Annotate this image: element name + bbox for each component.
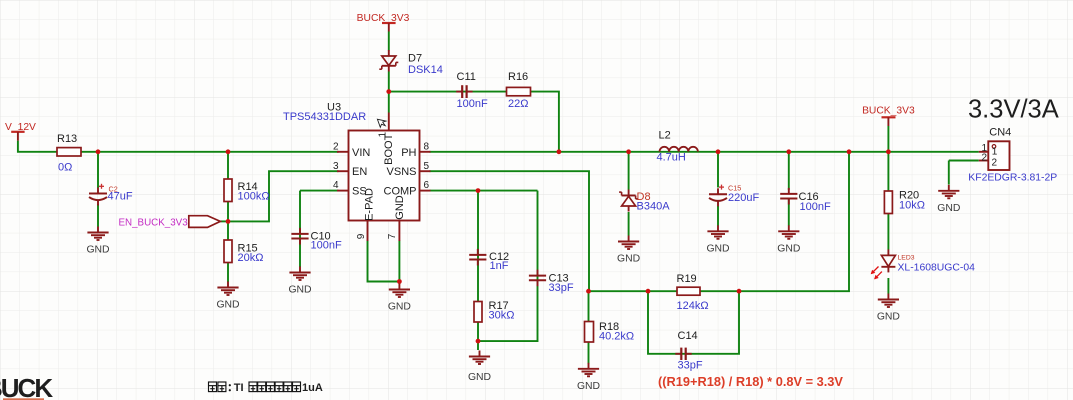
svg-text:TI: TI	[234, 382, 244, 394]
svg-text:8: 8	[424, 141, 430, 152]
svg-text:GND: GND	[216, 300, 239, 311]
svg-text:D7: D7	[408, 52, 422, 64]
svg-text:GND: GND	[288, 285, 311, 296]
svg-text:BUCK_3V3: BUCK_3V3	[862, 105, 915, 116]
svg-text:GND: GND	[877, 312, 900, 323]
svg-text:4.7uH: 4.7uH	[657, 151, 686, 163]
svg-text:R16: R16	[508, 71, 528, 83]
svg-text:VIN: VIN	[352, 147, 370, 159]
svg-text:100kΩ: 100kΩ	[238, 191, 270, 203]
svg-text:B340A: B340A	[637, 201, 671, 213]
svg-text:3.3V/3A: 3.3V/3A	[968, 96, 1059, 124]
svg-text:20kΩ: 20kΩ	[238, 252, 264, 264]
svg-text:VSNS: VSNS	[387, 166, 417, 178]
svg-text:BUCK_3V3: BUCK_3V3	[357, 13, 410, 24]
svg-text:((R19+R18) / R18) * 0.8V = 3.3: ((R19+R18) / R18) * 0.8V = 3.3V	[658, 374, 843, 389]
svg-text:GND: GND	[577, 381, 600, 392]
svg-text:C14: C14	[678, 330, 698, 342]
svg-text:BOOT: BOOT	[383, 133, 395, 164]
svg-text:2: 2	[981, 153, 987, 164]
svg-text:4: 4	[333, 180, 339, 191]
svg-text:0Ω: 0Ω	[58, 162, 72, 174]
svg-text:C11: C11	[457, 71, 476, 83]
svg-text:2: 2	[992, 157, 998, 168]
svg-text:220uF: 220uF	[728, 192, 759, 204]
svg-text:V_12V: V_12V	[5, 122, 36, 133]
svg-text:33pF: 33pF	[678, 360, 703, 372]
svg-text:E-PAD: E-PAD	[364, 188, 376, 221]
svg-text:GND: GND	[937, 203, 960, 214]
svg-text:PH: PH	[401, 147, 416, 159]
svg-text:7: 7	[387, 233, 398, 239]
svg-text:GND: GND	[468, 372, 491, 383]
svg-text:XL-1608UGC-04: XL-1608UGC-04	[898, 263, 976, 274]
svg-text:2: 2	[333, 141, 339, 152]
svg-text:1: 1	[992, 147, 998, 158]
svg-text:40.2kΩ: 40.2kΩ	[599, 331, 634, 343]
svg-text:22Ω: 22Ω	[508, 98, 528, 110]
svg-text:DSK14: DSK14	[408, 64, 443, 76]
svg-text:GND: GND	[617, 254, 640, 265]
svg-text:LED3: LED3	[898, 254, 915, 261]
svg-text:EN_BUCK_3V3: EN_BUCK_3V3	[119, 218, 189, 229]
svg-text:100nF: 100nF	[800, 201, 831, 213]
svg-text:L2: L2	[659, 129, 671, 141]
svg-text:EN: EN	[352, 166, 367, 178]
svg-text:30kΩ: 30kΩ	[489, 310, 515, 322]
svg-text:100nF: 100nF	[457, 98, 488, 110]
svg-text:GND: GND	[86, 245, 109, 256]
svg-text:R19: R19	[677, 273, 697, 285]
svg-text:1nF: 1nF	[490, 260, 509, 272]
svg-text:R13: R13	[57, 133, 77, 145]
svg-text:CN4: CN4	[989, 126, 1011, 138]
svg-text:6: 6	[424, 180, 430, 191]
svg-text:47uF: 47uF	[108, 190, 133, 202]
svg-text:GND: GND	[777, 243, 800, 254]
svg-text:C15: C15	[728, 183, 741, 192]
svg-text:1uA: 1uA	[302, 382, 323, 394]
svg-text:33pF: 33pF	[549, 282, 574, 294]
svg-text:KF2EDGR-3.81-2P: KF2EDGR-3.81-2P	[968, 172, 1057, 183]
svg-text:GND: GND	[388, 302, 411, 313]
svg-text:BUCK: BUCK	[0, 373, 53, 400]
svg-text:TPS54331DDAR: TPS54331DDAR	[283, 111, 366, 123]
svg-text:9: 9	[356, 233, 367, 239]
svg-text:10kΩ: 10kΩ	[899, 199, 925, 211]
svg-text:GND: GND	[394, 195, 406, 220]
svg-text:100nF: 100nF	[311, 240, 342, 252]
svg-text:5: 5	[424, 161, 430, 172]
svg-text:GND: GND	[706, 243, 729, 254]
svg-text:3: 3	[333, 161, 339, 172]
svg-text:124kΩ: 124kΩ	[677, 300, 709, 312]
